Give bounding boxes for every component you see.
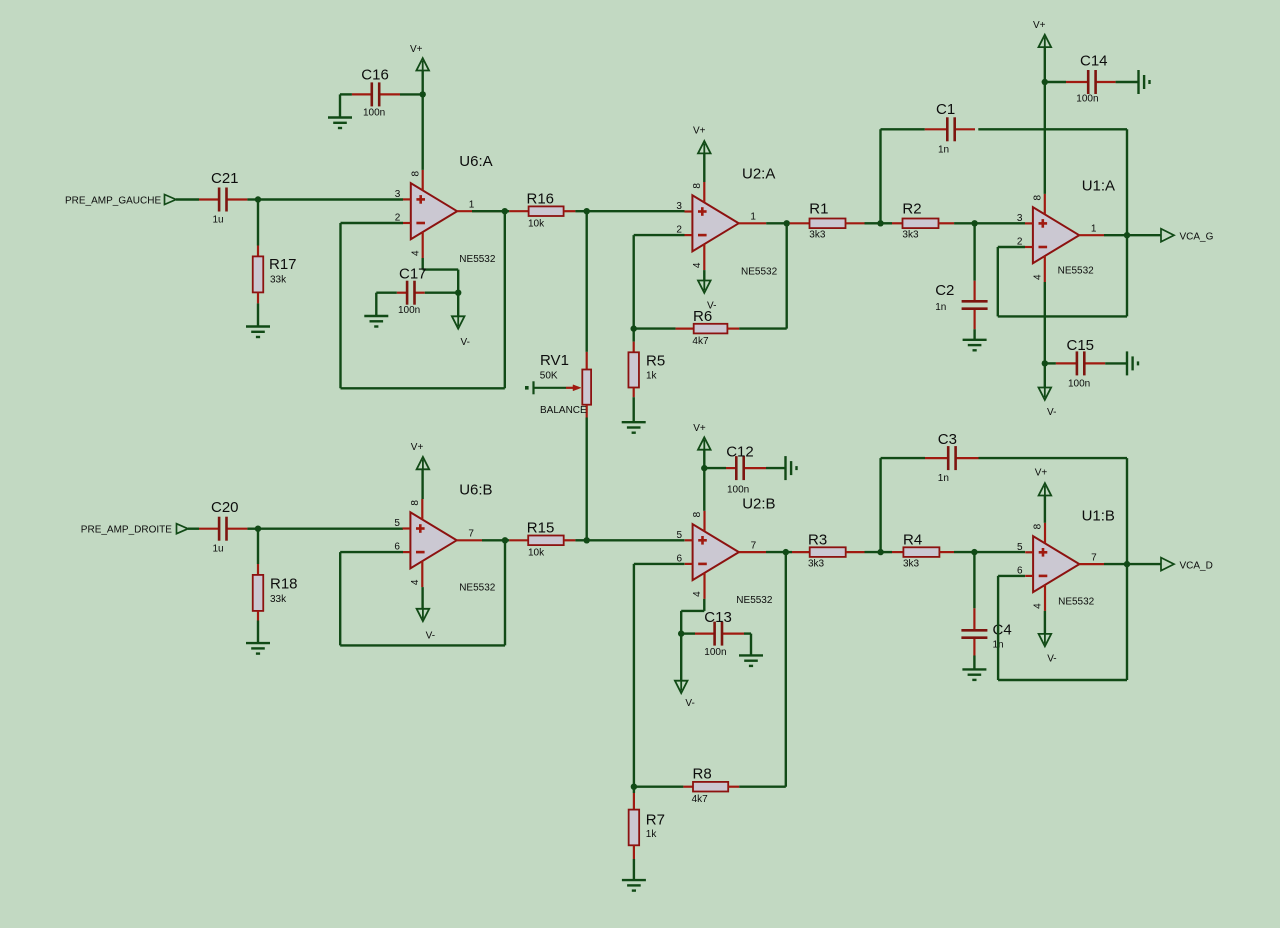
svg-text:4: 4 [692, 591, 703, 597]
wire C1 to right rail [978, 128, 1127, 130]
power V- U1:B [1039, 634, 1052, 646]
svg-text:NE5532: NE5532 [1058, 266, 1095, 277]
svg-text:1k: 1k [646, 371, 658, 382]
svg-text:1: 1 [1091, 223, 1097, 234]
node R16-RV1 [584, 208, 590, 214]
wire node A1 to U6:A pin 3 [258, 198, 403, 200]
node C16 [420, 91, 426, 97]
svg-text:R18: R18 [270, 576, 298, 593]
wire node down to C2 [973, 223, 975, 280]
wire C16 right to node [400, 93, 423, 95]
power V+ U6:A [416, 58, 429, 70]
svg-text:R15: R15 [527, 520, 555, 537]
svg-text:1n: 1n [938, 145, 949, 156]
node R2-C2 [971, 220, 977, 226]
resistor R1 [787, 222, 790, 224]
svg-text:4: 4 [410, 250, 421, 256]
ground C4 [962, 668, 986, 670]
ground C2 [963, 339, 987, 341]
svg-text:C21: C21 [211, 170, 239, 187]
svg-text:V-: V- [461, 337, 470, 348]
node R3-R4 [877, 549, 883, 555]
wire U6:A feedback pin 2 loop [341, 222, 404, 224]
svg-text:8: 8 [692, 183, 703, 189]
svg-text:8: 8 [1032, 194, 1043, 200]
svg-text:R3: R3 [808, 532, 827, 549]
node C17 [455, 290, 461, 296]
resistor R7 [633, 787, 635, 793]
ground C12 (rotated) [784, 456, 786, 480]
power V+ U6:B [417, 457, 430, 469]
wire U2:B pin 6 feedback down [634, 563, 685, 565]
ground C17 [364, 315, 388, 317]
ground C13 [739, 654, 763, 656]
wire U1:A output pin 1 [1079, 234, 1104, 236]
svg-text:10k: 10k [528, 219, 545, 230]
svg-text:100n: 100n [727, 485, 749, 496]
node U2:B output [783, 549, 789, 555]
svg-text:5: 5 [394, 518, 400, 529]
wire node to U1:B pin 5 [974, 551, 1025, 553]
svg-text:1: 1 [469, 199, 475, 210]
svg-text:7: 7 [468, 529, 474, 540]
wire node to U2:A pin 3 [587, 210, 685, 212]
node R7-R8 [631, 784, 637, 790]
wire RV1 down to R15 node [586, 418, 588, 541]
power V- U2:B [675, 681, 688, 693]
svg-text:V-: V- [685, 698, 694, 709]
wire node A1 down to R17 [257, 200, 259, 246]
svg-text:4: 4 [1032, 274, 1043, 280]
node R4-C4 [971, 549, 977, 555]
svg-text:4: 4 [1033, 603, 1044, 609]
wire node to U2:B pin 5 [587, 539, 685, 541]
wire input to C20 [188, 528, 199, 530]
node B1 [255, 526, 261, 532]
wire V+ rail down to C16 node [422, 71, 424, 95]
svg-text:8: 8 [692, 511, 703, 517]
resistor R18 [257, 564, 259, 575]
wire C2 to ground [973, 329, 975, 340]
svg-text:R2: R2 [902, 201, 921, 218]
svg-text:7: 7 [1091, 552, 1097, 563]
resistor R17 [257, 246, 259, 257]
svg-text:RV1: RV1 [540, 352, 569, 369]
svg-text:5: 5 [1017, 542, 1023, 553]
svg-text:1n: 1n [938, 473, 949, 484]
wire output down to R8 [785, 552, 787, 787]
node A1 [255, 196, 261, 202]
svg-text:4: 4 [410, 579, 421, 585]
svg-text:100n: 100n [363, 108, 385, 119]
svg-text:V-: V- [1047, 407, 1056, 418]
wire C15 node down to V- [1044, 363, 1046, 387]
power V+ U1:B [1039, 483, 1052, 495]
wire U2:A pin 4 to V- [703, 270, 705, 280]
wire C4 to ground [973, 656, 975, 670]
wire C13 right to ground [744, 632, 751, 634]
capacitor C13 [695, 632, 715, 634]
svg-text:3: 3 [676, 201, 682, 212]
wire C13 left to node [681, 632, 695, 634]
wire node B1 down to R18 [257, 529, 259, 564]
wire node C17 down to V- [457, 293, 459, 317]
svg-text:1k: 1k [646, 829, 658, 840]
svg-text:C20: C20 [211, 499, 239, 516]
node U1:A output [1124, 232, 1130, 238]
svg-text:NE5532: NE5532 [459, 583, 496, 594]
power V- U6:B [417, 609, 430, 621]
wire C15 to ground bar [1105, 362, 1127, 364]
resistor R16 [505, 210, 509, 212]
svg-text:NE5532: NE5532 [459, 254, 496, 265]
wire R18 to ground [257, 621, 259, 644]
ground R18 [246, 642, 270, 644]
svg-text:R5: R5 [646, 353, 665, 370]
wire U2:A pin 2 feedback [634, 234, 685, 236]
svg-text:3: 3 [395, 189, 401, 200]
svg-text:U1:A: U1:A [1082, 178, 1115, 195]
svg-text:PRE_AMP_DROITE: PRE_AMP_DROITE [81, 525, 172, 536]
resistor R2 [881, 222, 893, 224]
wire output to VCA_G terminal [1127, 234, 1161, 236]
svg-text:8: 8 [410, 500, 421, 506]
svg-text:100n: 100n [398, 305, 420, 316]
resistor R6 [634, 327, 676, 329]
wire U1:A pin 4 down to C15 node [1044, 282, 1046, 363]
svg-text:U2:B: U2:B [742, 496, 775, 513]
svg-text:C15: C15 [1067, 337, 1095, 354]
wire U2:A output down to R6 [786, 223, 788, 328]
svg-text:10k: 10k [528, 548, 545, 559]
power V+ U1:A [1039, 35, 1052, 47]
svg-text:BALANCE: BALANCE [540, 405, 587, 416]
wire C21 to node A1 [247, 198, 258, 200]
wire C17 right to node C17 [425, 292, 458, 294]
ground R7 [622, 879, 646, 881]
svg-text:U2:A: U2:A [742, 166, 775, 183]
wire U2:B pin 4 to C13 node [703, 599, 705, 611]
svg-text:50K: 50K [540, 371, 558, 382]
ground C16 [328, 116, 352, 118]
wire U6:B feedback pin 6 loop [340, 551, 403, 553]
capacitor C17 [397, 292, 407, 294]
wire U6:B pin 4 to V- [421, 587, 423, 609]
svg-text:R17: R17 [269, 256, 297, 273]
node C15 [1042, 360, 1048, 366]
wire R17 to ground [257, 303, 259, 326]
op-amp U1:A [1033, 207, 1079, 263]
svg-text:C13: C13 [704, 609, 732, 626]
svg-text:NE5532: NE5532 [741, 267, 778, 278]
svg-text:C17: C17 [399, 266, 427, 283]
resistor R3 [786, 551, 792, 553]
ground C15 (rotated) [1126, 351, 1128, 375]
wire U2:B output pin 7 [739, 551, 766, 553]
op-amp U6:B [410, 512, 456, 568]
wire output to VCA_D terminal [1127, 563, 1161, 565]
svg-text:V+: V+ [411, 442, 424, 453]
node C13 [678, 630, 684, 636]
node U6:B output [502, 537, 508, 543]
svg-text:1n: 1n [935, 302, 946, 313]
wire U1:A pin 2 feedback loop [998, 246, 1025, 248]
svg-text:R4: R4 [903, 532, 922, 549]
node U2:A output [784, 220, 790, 226]
capacitor C2 [973, 281, 975, 302]
wire C14 node down to U1:A pin 8 [1044, 82, 1046, 194]
svg-text:V+: V+ [410, 44, 423, 55]
wire node C13 down to V- [680, 634, 682, 681]
node C14 [1042, 79, 1048, 85]
svg-text:1u: 1u [213, 544, 224, 555]
potentiometer RV1 [586, 352, 588, 370]
terminal PRE_AMP_DROITE [177, 524, 189, 534]
op-amp U2:A [692, 195, 738, 251]
svg-text:V+: V+ [693, 423, 706, 434]
ground R5 [622, 421, 646, 423]
wire U1:B pin 6 feedback loop [998, 575, 1025, 577]
wire C14 to ground bar [1116, 81, 1139, 83]
ground R17 [246, 325, 270, 327]
terminal VCA_G [1161, 229, 1174, 242]
wire node B1 to U6:B pin 5 [258, 528, 403, 530]
node C12 [701, 465, 707, 471]
node R1-R2 [877, 220, 883, 226]
svg-text:3k3: 3k3 [809, 230, 826, 241]
power V- U2:A [698, 281, 711, 293]
wire C12 to ground bar [766, 467, 786, 469]
op-amp U2:B [693, 524, 739, 580]
svg-text:1: 1 [750, 212, 756, 223]
power V+ U2:A [698, 141, 711, 153]
wire V+ to U6:B pin 8 [421, 469, 423, 499]
capacitor C16 [352, 93, 372, 95]
wire input to C21 [176, 198, 199, 200]
capacitor C1 [881, 128, 925, 130]
svg-text:5: 5 [677, 530, 683, 541]
svg-text:3k3: 3k3 [903, 559, 920, 570]
node U1:B output [1124, 561, 1130, 567]
resistor R15 [505, 539, 509, 541]
wire V+ to U1:B pin 8 [1044, 496, 1046, 523]
svg-text:3k3: 3k3 [808, 559, 825, 570]
svg-text:4k7: 4k7 [692, 336, 709, 347]
svg-text:NE5532: NE5532 [1058, 597, 1095, 608]
svg-text:1u: 1u [213, 215, 224, 226]
svg-text:R16: R16 [527, 191, 555, 208]
wire node to U1:A pin 3 [975, 222, 1025, 224]
capacitor C14 [1045, 81, 1066, 83]
svg-text:C1: C1 [936, 101, 955, 118]
capacitor C4 [973, 608, 975, 630]
svg-text:33k: 33k [270, 275, 287, 286]
svg-text:R6: R6 [693, 308, 712, 325]
svg-text:8: 8 [1033, 523, 1044, 529]
capacitor C15 [1045, 362, 1056, 364]
svg-text:U1:B: U1:B [1082, 508, 1115, 525]
svg-text:V-: V- [426, 631, 435, 642]
wire C16 node down to U6:A pin 8 [422, 94, 424, 169]
wire U6:B output pin 7 [457, 539, 482, 541]
svg-text:V-: V- [1047, 654, 1056, 665]
svg-text:3: 3 [1017, 213, 1023, 224]
svg-text:33k: 33k [270, 594, 287, 605]
svg-text:100n: 100n [704, 647, 726, 658]
svg-text:C3: C3 [938, 431, 957, 448]
wire C3 to right rail [979, 457, 1128, 459]
node R15-RV1 [584, 537, 590, 543]
wire C17 left to ground [376, 292, 397, 294]
wire V+ to U2:A pin 8 [703, 153, 705, 182]
svg-text:C14: C14 [1080, 53, 1108, 70]
op-amp U6:A [411, 183, 457, 239]
svg-text:R1: R1 [809, 201, 828, 218]
node U6:A output [502, 208, 508, 214]
svg-text:V+: V+ [693, 125, 706, 136]
power V- U6:A [452, 316, 465, 328]
svg-text:U6:A: U6:A [459, 153, 492, 170]
svg-text:8: 8 [410, 170, 421, 176]
capacitor C3 [881, 457, 925, 459]
op-amp U1:B [1033, 536, 1079, 592]
resistor R5 [633, 329, 635, 342]
svg-text:3k3: 3k3 [902, 230, 919, 241]
resistor R4 [881, 551, 892, 553]
wire C12 node down to U2:B pin 8 [703, 468, 705, 511]
capacitor C21 [199, 198, 219, 200]
svg-text:C4: C4 [993, 622, 1012, 639]
wire C16 left to ground [340, 93, 352, 95]
svg-text:R8: R8 [693, 766, 712, 783]
wire U1:B output pin 7 [1079, 563, 1104, 565]
svg-text:R7: R7 [646, 812, 665, 829]
wire node down to RV1 [586, 211, 588, 352]
svg-text:C12: C12 [726, 444, 754, 461]
wire U2:A output pin 1 [739, 222, 767, 224]
svg-text:100n: 100n [1068, 379, 1090, 390]
power V+ U2:B [698, 437, 711, 449]
svg-text:V+: V+ [1035, 468, 1048, 479]
wire node up to C1 [879, 129, 881, 223]
resistor R8 [634, 786, 684, 788]
svg-text:4: 4 [692, 262, 703, 268]
svg-text:NE5532: NE5532 [736, 595, 773, 606]
power V- U1:A [1039, 388, 1052, 400]
svg-text:100n: 100n [1076, 94, 1098, 105]
node R5-R6 [631, 325, 637, 331]
wire U1:B pin 4 to V- [1044, 611, 1046, 634]
svg-text:4k7: 4k7 [692, 794, 709, 805]
terminal PRE_AMP_GAUCHE [165, 195, 177, 205]
svg-text:V+: V+ [1033, 20, 1046, 31]
svg-text:C2: C2 [935, 282, 954, 299]
svg-text:C16: C16 [361, 67, 389, 84]
wire node down to C4 [973, 552, 975, 608]
wire C20 to node B1 [247, 528, 258, 530]
svg-text:7: 7 [751, 540, 757, 551]
wire U6:A pin 4 to C17 node [422, 258, 424, 270]
capacitor C12 [704, 467, 726, 469]
svg-text:VCA_G: VCA_G [1180, 232, 1214, 243]
wire V+ down to C14 node [1044, 47, 1046, 82]
terminal VCA_D [1161, 558, 1174, 571]
svg-text:VCA_D: VCA_D [1180, 560, 1213, 571]
svg-text:U6:B: U6:B [459, 482, 492, 499]
wire U6:A output pin 1 [457, 210, 505, 212]
wire V+ down to C12 node [703, 450, 705, 468]
wire node up to C3 [879, 458, 881, 552]
ground C14 (rotated) [1137, 70, 1139, 94]
capacitor C20 [199, 528, 219, 530]
svg-text:PRE_AMP_GAUCHE: PRE_AMP_GAUCHE [65, 196, 161, 207]
